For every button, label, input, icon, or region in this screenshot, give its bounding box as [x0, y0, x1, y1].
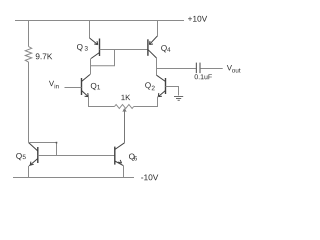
label +10V: [188, 16, 207, 22]
junction dot: [56, 142, 58, 144]
label Vout: [227, 65, 241, 73]
resistor R 9.7K: [25, 47, 31, 63]
wire Q6 collector up to wiper: [124, 142, 126, 145]
label 9.7K: [36, 53, 53, 59]
potentiometer wiper arrow: [123, 109, 126, 143]
label Vin: [49, 81, 59, 89]
wire Q5 emitter to -10V rail: [28, 166, 30, 177]
wire output node to capacitor: [157, 68, 197, 70]
transistor Q1 (NPN): [82, 75, 91, 97]
wire Q1 emitter down and right: [89, 97, 115, 107]
wire Q5/Q6 base bus: [38, 155, 115, 157]
wire resistor bottom to Q5 collector: [28, 62, 30, 143]
transistor Q6 (NPN): [115, 143, 125, 166]
label Q5: [16, 153, 26, 160]
label 0.1uF: [195, 74, 212, 79]
label -10V: [141, 174, 158, 180]
label Q6: [129, 153, 137, 160]
wire capacitor to Vout: [200, 68, 222, 70]
capacitor C 0.1uF: [196, 63, 200, 74]
wire Q3 emitter drop from rail: [89, 21, 91, 39]
label 1K: [121, 95, 130, 100]
label Q2: [145, 82, 155, 90]
transistor Q4 (PNP mirrored): [148, 36, 158, 58]
transistor Q2 (NPN mirrored): [157, 75, 166, 96]
wire pot right side to Q2 emitter: [134, 97, 158, 107]
label Q4: [161, 45, 170, 52]
wire Q2 base to ground: [166, 87, 179, 96]
transistor Q5 (NPN mirrored, diode connected): [29, 143, 38, 166]
wire Q3/Q4 base bus: [100, 49, 148, 51]
wire left branch from rail to resistor: [28, 21, 30, 47]
wire Q3 collector node down to Q1: [90, 59, 92, 75]
transistor Q3 (PNP): [90, 38, 100, 59]
label Q1: [91, 83, 100, 90]
wire -10V bottom rail: [13, 177, 134, 179]
wire Q6 emitter to -10V rail: [123, 166, 125, 177]
wire Q4 collector down to output node: [156, 58, 158, 75]
ground: [174, 97, 183, 101]
label Q3: [77, 44, 88, 51]
wire Q5 collector loop to base bus: [29, 143, 57, 156]
wire Q4 emitter drop from rail: [157, 21, 159, 36]
wire +10V top rail: [15, 20, 184, 22]
wire Q1 base from Vin: [65, 87, 82, 89]
potentiometer 1K zigzag: [115, 105, 134, 109]
wire Q3 diode loop: [91, 50, 115, 66]
